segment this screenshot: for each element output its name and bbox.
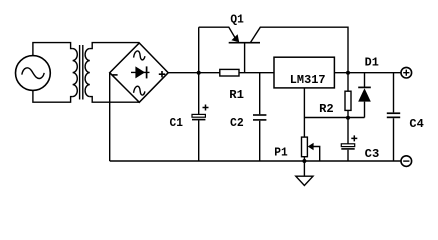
svg-text:D1: D1 [365,56,379,70]
svg-text:LM317: LM317 [290,73,326,87]
svg-text:C1: C1 [170,116,183,130]
svg-text:Q1: Q1 [230,12,243,26]
svg-text:P1: P1 [274,145,287,159]
svg-text:C3: C3 [365,147,380,161]
svg-text:R2: R2 [319,102,334,116]
svg-text:C2: C2 [230,116,244,130]
svg-text:C4: C4 [409,117,423,131]
svg-text:R1: R1 [229,88,244,102]
